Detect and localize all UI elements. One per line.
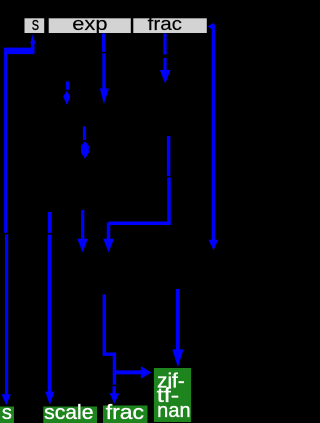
- node green zif-tf-nan: [154, 368, 191, 422]
- record box cell exp: [49, 18, 131, 33]
- wire: exp down arrow: [102, 34, 105, 52]
- wire: down arrow into zif-tf-nan: [176, 289, 180, 351]
- arrowhead down into green frac: [110, 393, 120, 404]
- arrowhead (stepped) left lower: [77, 239, 88, 253]
- wire: frac stub segment 1: [163, 34, 166, 55]
- arrowhead (stepped) right-mid elbow: [103, 239, 114, 253]
- arrowhead down far right: [209, 240, 219, 251]
- svg-text:frac: frac: [148, 14, 182, 34]
- node green scale: [43, 407, 97, 423]
- wire: long arrow into scale: [48, 212, 52, 233]
- svg-text:nan: nan: [157, 400, 190, 422]
- arrowhead (stepped) frac stub: [160, 70, 171, 84]
- arrowhead (stepped) exp arrow: [100, 89, 109, 105]
- node green s: [0, 407, 14, 423]
- arrowhead down into green s: [2, 394, 11, 405]
- svg-text:scale: scale: [44, 402, 93, 423]
- node green frac: [103, 406, 148, 423]
- arrowhead (stepped) into zif-tf-nan: [172, 349, 183, 367]
- record box cell s: [25, 18, 45, 33]
- arrowhead (stepped) into scale: [45, 392, 54, 405]
- wire: up-arrow shaft into record s: [31, 41, 34, 53]
- svg-text:exp: exp: [72, 14, 107, 34]
- svg-text:frac: frac: [106, 402, 144, 423]
- arrowhead up into record s: [30, 34, 35, 43]
- record box cell frac: [133, 18, 207, 33]
- wire: horizontal branch into zif-tf-nan: [114, 370, 142, 374]
- wire: frac branch (down, jog right, down): [104, 295, 114, 385]
- wire: short arrow below record (left mid): [66, 82, 69, 90]
- arrowhead left into record frac: [208, 23, 214, 31]
- wire: long left vertical to green s: [4, 48, 7, 233]
- svg-text:s: s: [2, 402, 12, 423]
- wire: left lower arrow: [81, 210, 84, 240]
- svg-text:s: s: [32, 14, 39, 34]
- wire: middle joiner arrow: [83, 127, 86, 141]
- wire: horizontal elbow at top left: [4, 48, 34, 55]
- arrowhead right into zif-tf-nan: [141, 366, 152, 379]
- wire: right-mid elbow (down, left, down): [167, 136, 171, 176]
- wire: far right line from record: [211, 26, 213, 240]
- arrowhead (stepped) middle joiner: [81, 141, 89, 159]
- arrowhead (stepped) short arrow: [63, 91, 70, 105]
- wire: frac stub segment 2: [163, 58, 166, 71]
